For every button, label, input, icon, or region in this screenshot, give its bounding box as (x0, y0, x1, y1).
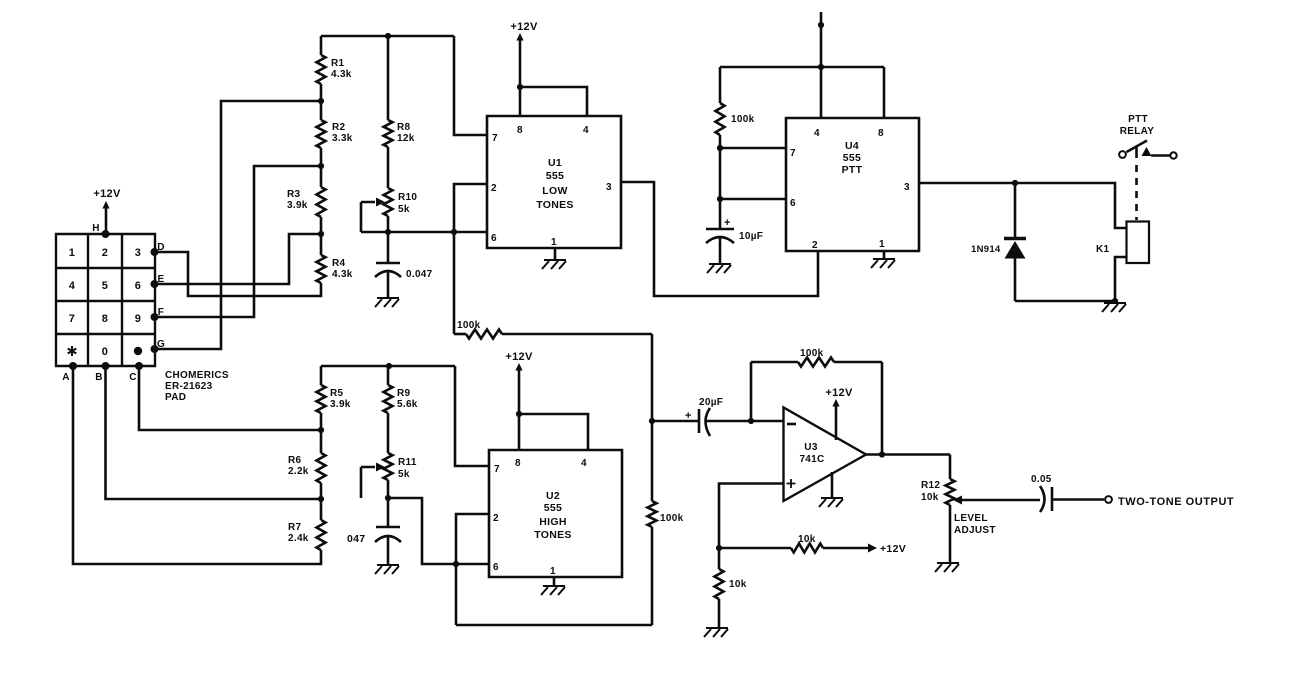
wire R5-R6 (320, 413, 323, 453)
svg-text:PTT: PTT (1128, 114, 1148, 125)
node A (62, 362, 77, 383)
svg-text:2: 2 (491, 183, 497, 194)
svg-text:10µF: 10µF (739, 231, 763, 242)
potentiometer R12 level (921, 455, 955, 563)
resistor 10k bias to +12V (719, 534, 906, 555)
svg-text:C: C (129, 372, 137, 383)
junction U1 pins 2-6 tie (451, 229, 457, 235)
svg-text:+12V: +12V (93, 188, 121, 200)
svg-text:3.3k: 3.3k (332, 133, 353, 144)
svg-text:R4: R4 (332, 258, 346, 269)
wire U1 pin3 to U4 pin2 (621, 182, 818, 296)
svg-text:U1: U1 (548, 157, 562, 169)
keypad +12V supply at pin H (93, 188, 121, 233)
ground below 10uF (707, 264, 731, 273)
svg-text:741C: 741C (799, 454, 824, 465)
svg-text:555: 555 (546, 170, 564, 182)
U4 pin1 ground stub (883, 251, 886, 258)
svg-text:R7: R7 (288, 522, 302, 533)
wire R2-R3 (320, 148, 323, 187)
svg-text:TONES: TONES (534, 529, 571, 541)
svg-text:100k: 100k (800, 348, 824, 359)
resistor R2 (317, 120, 353, 148)
wire R6-R7 (320, 483, 323, 520)
svg-text:LOW: LOW (542, 185, 567, 197)
svg-text:K1: K1 (1096, 244, 1110, 255)
ground below U3 (819, 498, 843, 507)
resistor R5 (317, 366, 351, 413)
svg-text:6: 6 (491, 233, 497, 244)
R11 wiper arm (361, 463, 385, 499)
svg-text:100k: 100k (457, 320, 481, 331)
svg-text:9: 9 (135, 313, 141, 325)
svg-text:2: 2 (493, 513, 499, 524)
ground below R12 (935, 563, 959, 572)
svg-text:2.2k: 2.2k (288, 466, 309, 477)
resistor R6 (288, 453, 326, 483)
svg-text:ER-21623: ER-21623 (165, 381, 213, 392)
junction relay ground node (1112, 298, 1118, 304)
svg-text:2: 2 (102, 247, 108, 259)
svg-text:8: 8 (878, 128, 884, 139)
wire B to R6/R7 junction (106, 366, 322, 499)
junction bias node (716, 545, 722, 551)
wire U2 pin7 (455, 366, 489, 466)
junction U1 supply node (517, 84, 523, 90)
junction U2 supply node (516, 411, 522, 417)
svg-text:100k: 100k (731, 114, 755, 125)
relay label (1120, 114, 1155, 137)
svg-text:1: 1 (550, 566, 556, 577)
wire feedback down (881, 362, 884, 454)
R10 wiper arm (361, 198, 385, 233)
resistor R7 (288, 520, 326, 550)
potentiometer R11 (384, 453, 417, 498)
resistor 100k (U4) (716, 67, 755, 148)
resistor R9 (384, 366, 418, 413)
svg-text:H: H (92, 223, 100, 234)
junction U4 rail node (818, 64, 824, 70)
junction R9 top (386, 363, 392, 369)
U2 +12V supply (505, 351, 533, 450)
svg-text:10k: 10k (729, 579, 747, 590)
resistor R8 (384, 36, 415, 147)
svg-text:10k: 10k (798, 534, 816, 545)
svg-text:R2: R2 (332, 122, 346, 133)
relay coil K1 (1096, 222, 1149, 264)
wire U4 supply rail (720, 67, 884, 118)
svg-text:+: + (724, 217, 731, 229)
ground below U4 (871, 259, 895, 268)
resistor 100k (U2 mix) (648, 421, 684, 625)
svg-text:+12V: +12V (880, 543, 906, 555)
op-amp U3 741C (784, 408, 867, 502)
relay contact PTT (1119, 141, 1177, 159)
node F (151, 307, 165, 321)
svg-text:TWO-TONE OUTPUT: TWO-TONE OUTPUT (1118, 496, 1234, 508)
ground below U2 (541, 586, 565, 595)
wire U1 timing node down (453, 232, 456, 334)
wire R11 node to U2 pin 6 (388, 498, 489, 564)
junction U4 pin7 node (717, 145, 723, 151)
svg-text:5k: 5k (398, 469, 410, 480)
keypad key # (dot symbol) (134, 347, 142, 355)
node C (129, 362, 143, 383)
junction summing node (649, 418, 655, 424)
junction R11 bottom node (385, 495, 391, 501)
U4 designation text (842, 140, 863, 176)
svg-text:+12V: +12V (505, 351, 533, 363)
resistor R3 (287, 187, 326, 217)
ground below U1 (542, 260, 566, 269)
output label (1118, 496, 1234, 508)
svg-text:4: 4 (583, 125, 589, 136)
svg-text:4: 4 (69, 280, 76, 292)
svg-text:7: 7 (492, 133, 498, 144)
node B (95, 362, 109, 383)
svg-text:555: 555 (843, 152, 861, 164)
svg-text:1N914: 1N914 (971, 244, 1001, 255)
svg-text:8: 8 (102, 313, 108, 325)
svg-text:6: 6 (493, 562, 499, 573)
svg-text:2: 2 (812, 240, 818, 251)
junction R6/R7 node (318, 496, 324, 502)
svg-text:5.6k: 5.6k (397, 399, 418, 410)
U1 pin1 ground stub (554, 248, 557, 259)
potentiometer R10 (384, 188, 418, 232)
wire U4 pin3 to relay (919, 183, 1126, 228)
svg-text:R12: R12 (921, 480, 940, 491)
wire non-inverting input (719, 484, 784, 549)
svg-text:0: 0 (102, 346, 108, 358)
wire R8-R10 (387, 147, 390, 188)
keypad key * (68, 346, 77, 356)
keypad part label (165, 370, 229, 403)
U1 +12V supply (510, 21, 538, 116)
svg-text:10k: 10k (921, 492, 939, 503)
U2 pin labels (493, 458, 587, 577)
wire lower rail U2 section (321, 365, 455, 368)
svg-text:R9: R9 (397, 388, 411, 399)
svg-text:R8: R8 (397, 122, 411, 133)
resistor R4 (317, 255, 353, 283)
U2 designation text (534, 490, 571, 541)
wire F to R2/R3 junction (155, 166, 322, 317)
wire D to R4 bottom (155, 252, 322, 296)
op IC U4 555 box (786, 118, 919, 251)
svg-text:5: 5 (102, 280, 108, 292)
diode 1N914 (971, 183, 1026, 301)
svg-text:4: 4 (581, 458, 587, 469)
svg-text:100k: 100k (660, 513, 684, 524)
svg-text:U4: U4 (845, 140, 859, 152)
resistor 10k bias to ground (715, 548, 747, 627)
U3 negative rail ground stub (831, 472, 834, 497)
svg-text:LEVEL: LEVEL (954, 513, 988, 524)
svg-text:ADJUST: ADJUST (954, 525, 996, 536)
svg-text:R5: R5 (330, 388, 344, 399)
svg-text:4.3k: 4.3k (331, 69, 352, 80)
U2 pin1 ground stub (553, 577, 556, 585)
svg-text:+12V: +12V (510, 21, 538, 33)
node H (92, 223, 109, 238)
keypad key legends (69, 247, 141, 358)
svg-text:0.05: 0.05 (1031, 474, 1052, 485)
wire G to R1/R2 junction (155, 101, 322, 349)
junction R1/R2 node (318, 98, 324, 104)
svg-text:+: + (685, 410, 692, 422)
capacitor 0.047 (375, 232, 433, 297)
junction R5/R6 node (318, 427, 324, 433)
node E (151, 274, 165, 288)
wire U1 pin7 (454, 36, 487, 135)
wire R1-R2 (320, 84, 323, 120)
wire U4 pin7 (720, 147, 786, 150)
wire U1 pin2 (454, 184, 487, 232)
svg-text:3: 3 (606, 182, 612, 193)
U1 designation text (536, 157, 573, 211)
svg-text:PAD: PAD (165, 392, 186, 403)
wire U2 pin2 (456, 514, 489, 564)
junction U2 pins 2-6 tie (453, 561, 459, 567)
ground below 0.047 (375, 298, 399, 307)
svg-text:R10: R10 (398, 192, 417, 203)
junction R3/R4 node (318, 231, 324, 237)
wire op-amp output (866, 453, 950, 456)
level adjust label (954, 513, 996, 536)
svg-text:4.3k: 4.3k (332, 269, 353, 280)
svg-text:8: 8 (517, 125, 523, 136)
svg-text:20µF: 20µF (699, 397, 723, 408)
svg-text:7: 7 (790, 148, 796, 159)
wire U4 pin6 (720, 198, 786, 201)
op IC U1 555 box (487, 116, 621, 248)
svg-text:4: 4 (814, 128, 820, 139)
svg-text:HIGH: HIGH (539, 516, 566, 528)
svg-text:CHOMERICS: CHOMERICS (165, 370, 229, 381)
junction op-amp output node (879, 451, 885, 457)
wire top rail U1 section (321, 35, 454, 38)
svg-text:3.9k: 3.9k (330, 399, 351, 410)
svg-text:PTT: PTT (842, 164, 863, 176)
junction R2/R3 node (318, 163, 324, 169)
wire C to R5/R6 junction (139, 366, 321, 430)
svg-text:B: B (95, 372, 103, 383)
wire relay ground rail (1015, 257, 1126, 301)
wire R10 node to U1 pin 6 (361, 231, 487, 234)
U1 pin labels (491, 125, 612, 248)
svg-text:R11: R11 (398, 457, 417, 468)
svg-text:0.047: 0.047 (406, 269, 433, 280)
ground below bias (704, 628, 728, 637)
U3 +12V supply (825, 387, 853, 440)
wire bottom rail to 100k (456, 624, 652, 627)
svg-text:5k: 5k (398, 204, 410, 215)
wire U2 timing node down (455, 564, 458, 625)
svg-text:555: 555 (544, 502, 562, 514)
svg-text:A: A (62, 372, 70, 383)
U4 pin labels (790, 128, 910, 251)
resistor 100k (U1 mix) (454, 320, 652, 339)
svg-text:1: 1 (69, 247, 75, 259)
svg-text:RELAY: RELAY (1120, 126, 1155, 137)
svg-text:+12V: +12V (825, 387, 853, 399)
svg-text:047: 047 (347, 533, 365, 545)
wire mix to summing junction (651, 334, 654, 421)
svg-text:3.9k: 3.9k (287, 200, 308, 211)
wire feedback up (750, 362, 753, 421)
svg-text:3: 3 (904, 182, 910, 193)
svg-text:U3: U3 (804, 442, 818, 453)
relay contact dashed link (1135, 165, 1138, 220)
resistor R1 (317, 36, 352, 84)
junction U4 supply stub (818, 22, 824, 28)
wire A to R7 bottom (73, 366, 321, 564)
wire R3-R4 (320, 217, 323, 255)
wire U1 pin4 strap (520, 87, 587, 116)
capacitor 0.05 (1031, 474, 1104, 512)
wire E to R3/R4 junction (155, 234, 322, 284)
capacitor 10uF (706, 199, 763, 263)
wire 100k to pin6 node (719, 148, 722, 199)
op IC U2 555 box (489, 450, 622, 577)
wire summing node to 20uF (652, 420, 699, 423)
ground below relay (1102, 303, 1126, 312)
node G (151, 339, 166, 353)
node D (151, 242, 165, 256)
svg-text:8: 8 (515, 458, 521, 469)
junction op-amp inverting node (748, 418, 754, 424)
svg-text:TONES: TONES (536, 199, 573, 211)
svg-text:R3: R3 (287, 189, 301, 200)
resistor 100k feedback (751, 348, 882, 367)
junction R10 bottom node (385, 229, 391, 235)
wire R9-R11 (387, 413, 390, 453)
wire U4 +12V stub (820, 12, 823, 118)
svg-text:7: 7 (494, 464, 500, 475)
svg-text:R6: R6 (288, 455, 302, 466)
svg-text:7: 7 (69, 313, 75, 325)
svg-text:R1: R1 (331, 58, 345, 69)
junction U4 pin6 node (717, 196, 723, 202)
svg-text:U2: U2 (546, 490, 560, 502)
svg-text:3: 3 (135, 247, 141, 259)
svg-text:6: 6 (790, 198, 796, 209)
wire U2 pin4 strap (519, 414, 588, 450)
capacitor 047 (347, 498, 401, 564)
capacitor 20uF (685, 397, 783, 436)
R12 wiper arm (953, 496, 1040, 505)
junction R8 top (385, 33, 391, 39)
ground below 047 (375, 565, 399, 574)
svg-text:2.4k: 2.4k (288, 533, 309, 544)
output terminal (1105, 496, 1112, 503)
svg-text:1: 1 (551, 237, 557, 248)
svg-text:1: 1 (879, 239, 885, 250)
junction diode top (1012, 180, 1018, 186)
svg-text:12k: 12k (397, 133, 415, 144)
keypad CHOMERICS ER-21623 outline and grid (56, 234, 155, 366)
svg-text:6: 6 (135, 280, 141, 292)
